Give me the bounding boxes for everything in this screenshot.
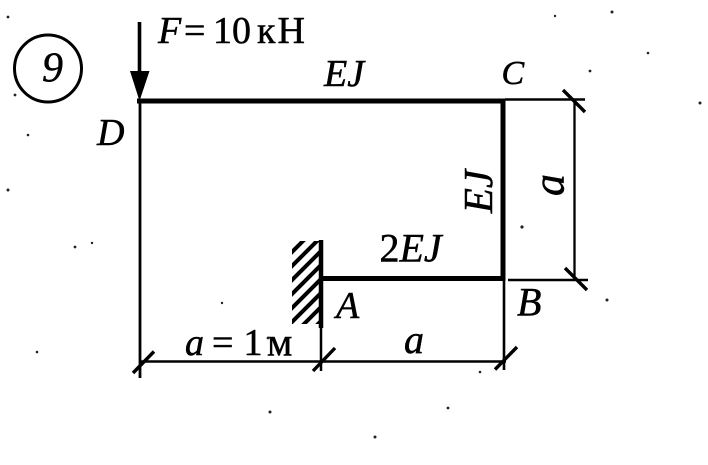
svg-text:10: 10 xyxy=(213,10,251,52)
svg-text:EJ: EJ xyxy=(323,53,366,95)
svg-text:9: 9 xyxy=(42,46,63,92)
svg-text:A: A xyxy=(333,285,360,327)
svg-text:a: a xyxy=(404,317,424,362)
beam A-B (2EJ) xyxy=(321,276,506,281)
bottom dimension tick at D xyxy=(133,352,154,374)
bottom dimension tick at B xyxy=(495,347,517,370)
svg-text:a: a xyxy=(185,322,204,364)
bottom dimension line xyxy=(139,360,506,363)
svg-text:a: a xyxy=(525,174,574,196)
support extension line below wall xyxy=(320,328,323,371)
svg-text:F: F xyxy=(157,10,182,52)
svg-text:=: = xyxy=(212,322,233,364)
right dimension: top extension line from C xyxy=(505,98,585,101)
problem number circle xyxy=(15,35,82,102)
svg-text:=: = xyxy=(184,10,205,52)
column C-B (EJ) xyxy=(501,99,506,282)
svg-text:кН: кН xyxy=(257,10,307,52)
fixed support wall line at A xyxy=(319,240,324,328)
bottom dimension tick at A xyxy=(313,348,335,371)
svg-text:1: 1 xyxy=(244,322,263,364)
svg-text:C: C xyxy=(502,55,525,92)
right dimension line (vertical) xyxy=(573,100,575,281)
beam D-C (EJ) xyxy=(137,99,506,104)
force arrow F xyxy=(130,22,150,101)
right dimension tick (bottom) xyxy=(565,268,587,290)
svg-text:2EJ: 2EJ xyxy=(380,226,444,271)
right dimension tick (top) xyxy=(563,90,585,112)
svg-text:B: B xyxy=(517,280,541,325)
fixed support hatching xyxy=(284,214,330,372)
svg-text:м: м xyxy=(267,320,292,365)
svg-text:EJ: EJ xyxy=(455,168,501,214)
column at D (vertical extension line) xyxy=(139,101,142,378)
svg-text:D: D xyxy=(96,112,124,154)
right dimension: bottom extension line from B xyxy=(508,279,588,282)
extension line below B xyxy=(503,281,506,370)
